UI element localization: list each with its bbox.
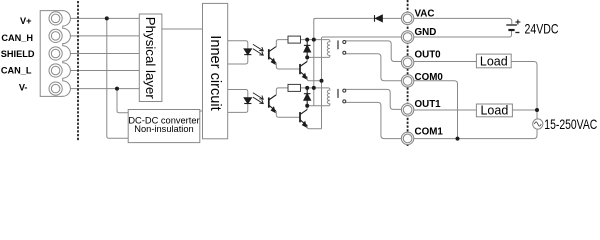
svg-text:CAN_H: CAN_H	[1, 33, 33, 43]
svg-text:Load: Load	[480, 54, 508, 68]
svg-text:Load: Load	[480, 104, 508, 118]
svg-text:COM0: COM0	[415, 72, 444, 83]
svg-text:V+: V+	[20, 16, 32, 26]
svg-text:15-250VAC: 15-250VAC	[544, 116, 597, 132]
svg-text:COM1: COM1	[415, 126, 444, 137]
svg-text:Inner circuit: Inner circuit	[207, 35, 223, 110]
svg-text:SHIELD: SHIELD	[1, 49, 35, 59]
svg-text:VAC: VAC	[415, 9, 435, 20]
svg-text:24VDC: 24VDC	[525, 20, 559, 36]
svg-text:Physical layer: Physical layer	[143, 17, 158, 100]
svg-text:V-: V-	[19, 82, 28, 92]
svg-text:Non-insulation: Non-insulation	[134, 124, 193, 134]
svg-text:CAN_L: CAN_L	[1, 65, 32, 75]
svg-text:GND: GND	[415, 27, 437, 38]
svg-text:OUT0: OUT0	[415, 49, 442, 60]
svg-text:OUT1: OUT1	[415, 99, 442, 110]
